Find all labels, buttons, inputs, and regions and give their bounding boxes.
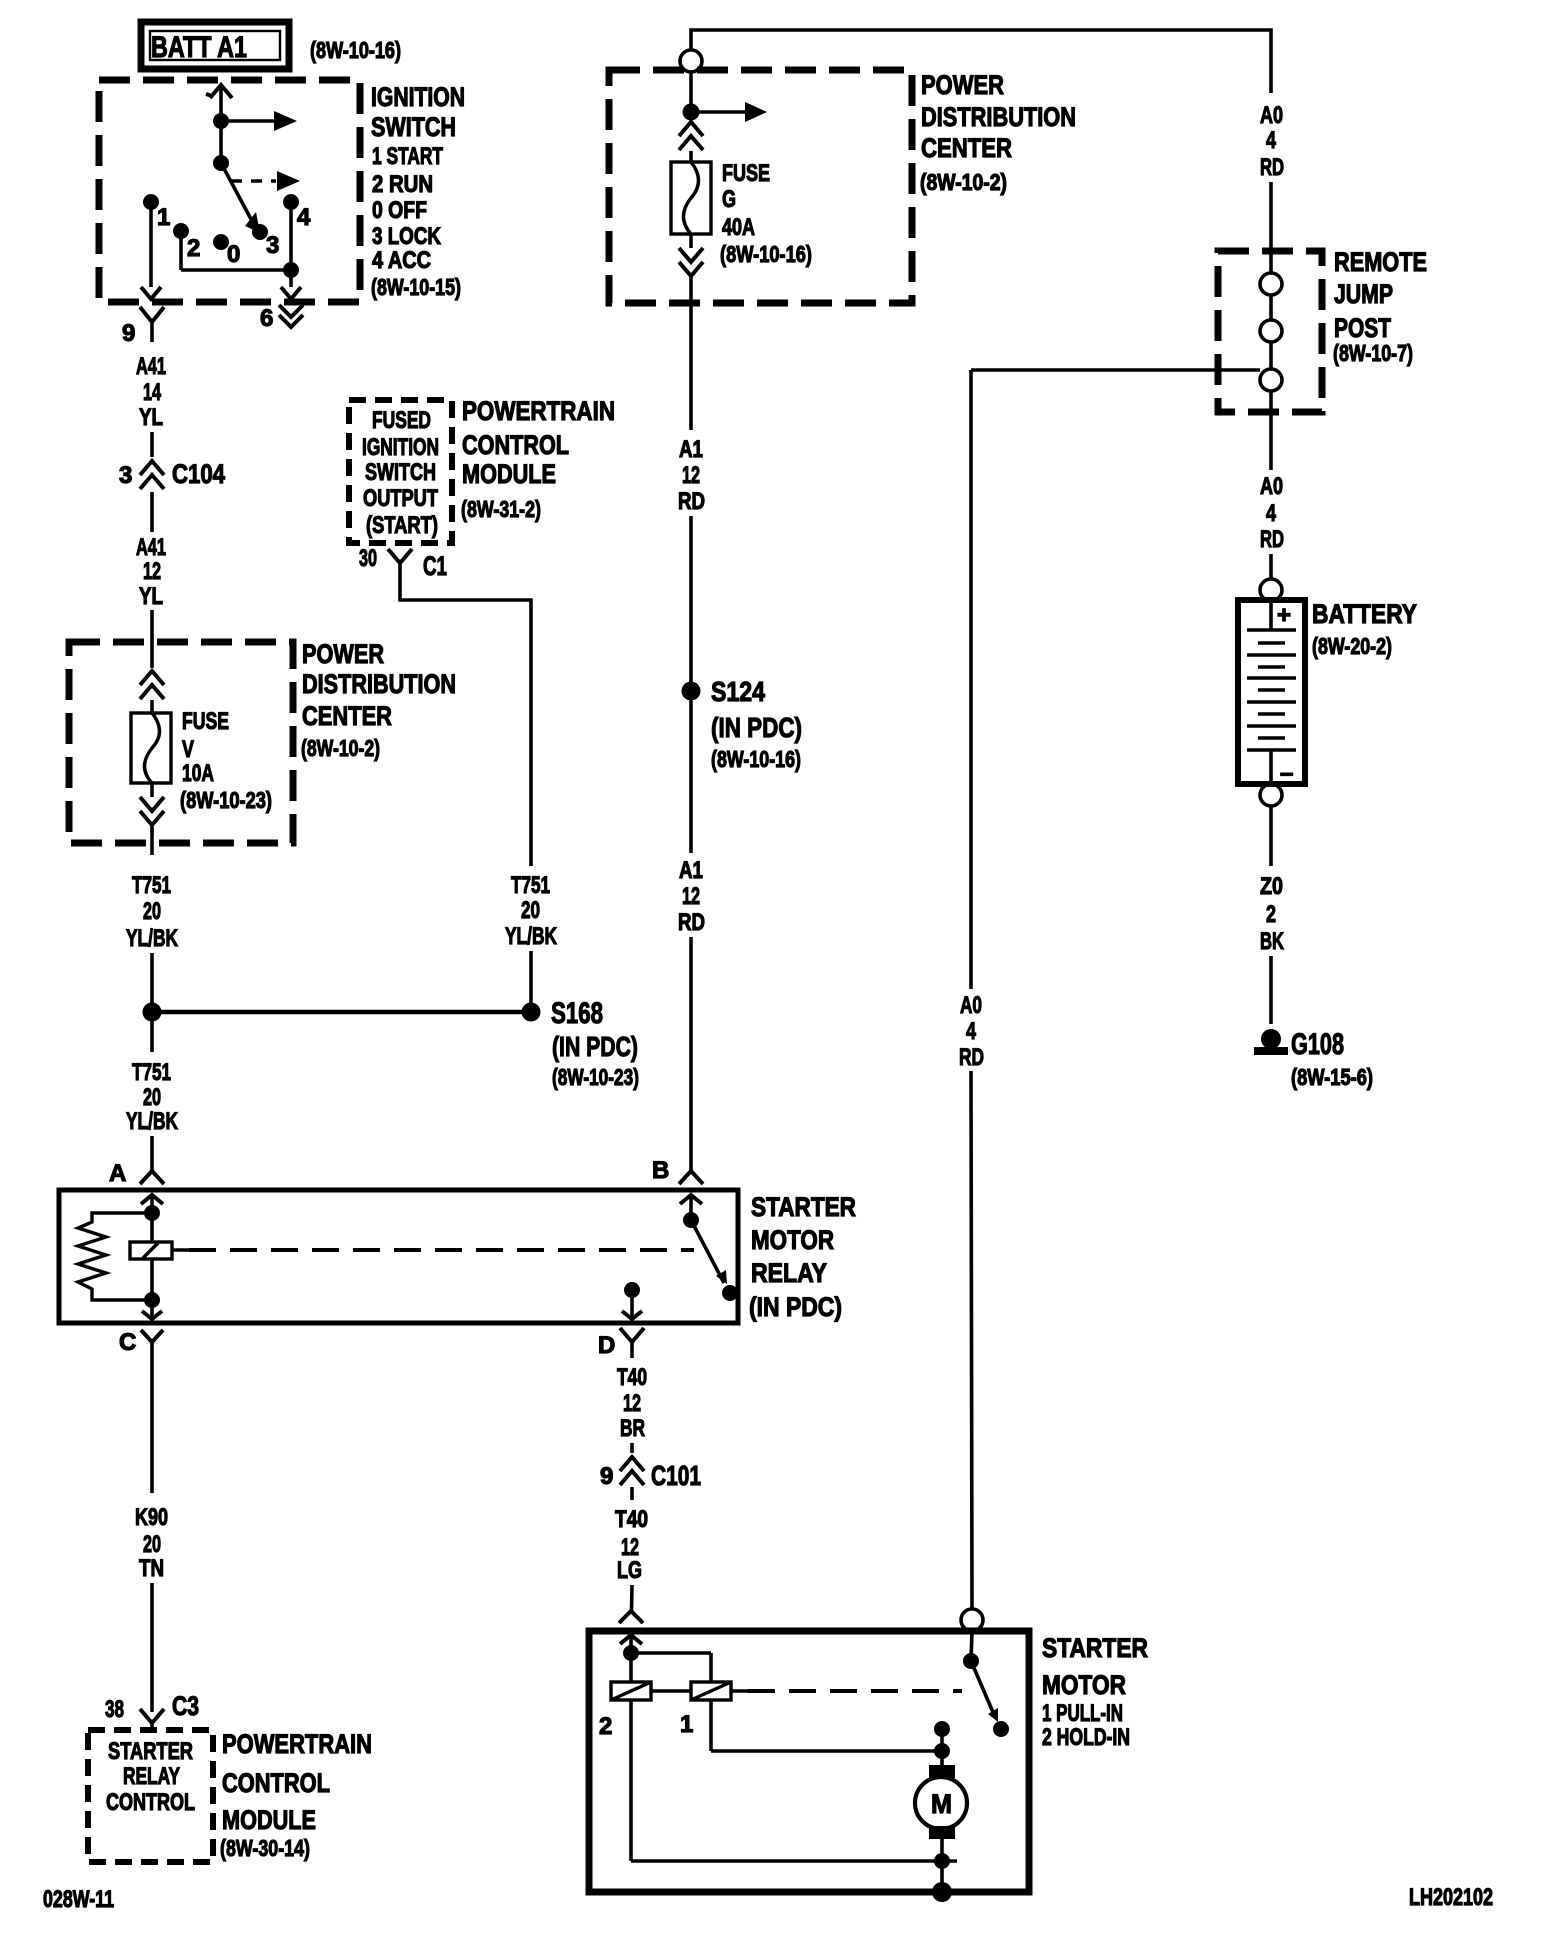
svg-text:M: M: [931, 1789, 952, 1819]
starter motor box: [589, 1631, 1029, 1892]
svg-text:JUMP: JUMP: [1334, 279, 1393, 309]
svg-text:C101: C101: [651, 1460, 701, 1491]
svg-text:G108: G108: [1291, 1028, 1344, 1061]
svg-text:T751: T751: [511, 872, 550, 899]
svg-text:12: 12: [682, 462, 700, 489]
wire resumes to S168: [529, 951, 533, 1003]
svg-text:BATTERY: BATTERY: [1312, 599, 1417, 629]
svg-text:2 HOLD-IN: 2 HOLD-IN: [1042, 1724, 1130, 1751]
svg-text:S168: S168: [551, 997, 603, 1030]
ignition switch common feed wire: [206, 85, 232, 163]
ignition switch RUN dashed arrow: [231, 171, 300, 191]
svg-text:20: 20: [521, 897, 540, 924]
svg-text:FUSE: FUSE: [182, 708, 229, 735]
PDC internal feed with arrow: [683, 72, 768, 122]
fuse G labels: [720, 160, 812, 267]
starter B+ stud terminal: [961, 1609, 983, 1631]
svg-text:STARTER: STARTER: [108, 1738, 193, 1765]
starter motor relay labels: [749, 1192, 856, 1322]
svg-text:RD: RD: [678, 488, 705, 515]
svg-text:4: 4: [1266, 127, 1276, 154]
svg-text:BK: BK: [1260, 928, 1284, 955]
splice S124 junction: [682, 682, 701, 701]
svg-text:LG: LG: [617, 1557, 642, 1584]
svg-text:12: 12: [682, 883, 700, 910]
wire A41 14 YL label: [136, 353, 166, 431]
svg-text:(8W-10-23): (8W-10-23): [552, 1064, 639, 1090]
wire from C1 to splice S168: [400, 577, 531, 866]
starter motor labels: [1042, 1633, 1148, 1751]
svg-text:4: 4: [966, 1018, 976, 1045]
svg-text:A0: A0: [1260, 473, 1283, 500]
svg-text:9: 9: [122, 320, 135, 347]
svg-text:POWER: POWER: [302, 639, 384, 669]
svg-text:C: C: [119, 1329, 136, 1356]
svg-text:K90: K90: [135, 1504, 168, 1531]
fuse V 10A element: [131, 713, 171, 783]
svg-text:0: 0: [227, 241, 240, 268]
wire A0 4 RD to starter motor: [959, 370, 984, 1609]
svg-text:T40: T40: [615, 1506, 648, 1533]
fuse G output connector chevrons: [679, 234, 703, 303]
svg-text:FUSE: FUSE: [722, 160, 770, 187]
svg-text:38: 38: [105, 1696, 124, 1723]
svg-text:IGNITION: IGNITION: [362, 434, 439, 461]
svg-text:14: 14: [143, 379, 161, 406]
pull-in winding to motor wire: [711, 1700, 950, 1766]
svg-text:RD: RD: [959, 1044, 984, 1071]
svg-text:CENTER: CENTER: [921, 133, 1012, 163]
svg-text:RELAY: RELAY: [123, 1763, 180, 1790]
svg-text:CENTER: CENTER: [302, 701, 392, 731]
svg-text:REMOTE: REMOTE: [1334, 247, 1427, 277]
fuse G 40A element: [671, 162, 711, 234]
svg-text:20: 20: [143, 1531, 161, 1558]
jump post stud 3: [1260, 342, 1282, 391]
svg-text:C3: C3: [172, 1691, 199, 1721]
relay pin A connector: [109, 1160, 164, 1213]
wire contact1 to pin 9: [141, 202, 161, 299]
solenoid hold-in winding 2: [599, 1682, 651, 1740]
svg-text:MOTOR: MOTOR: [1042, 1670, 1126, 1700]
svg-text:POWER: POWER: [921, 70, 1004, 100]
svg-text:2: 2: [599, 1713, 612, 1740]
relay actuation dashed link: [172, 1248, 189, 1252]
svg-text:C1: C1: [423, 551, 447, 581]
ground G108: [1254, 1028, 1373, 1090]
svg-text:SWITCH: SWITCH: [371, 112, 456, 142]
svg-text:YL/BK: YL/BK: [126, 1108, 178, 1135]
ignition switch pin 6 connector: [260, 305, 303, 332]
splice S124 labels: [711, 676, 802, 772]
ignition switch rotor contact: [213, 155, 229, 171]
relay pin D connector: [598, 1328, 644, 1359]
svg-text:(8W-10-2): (8W-10-2): [920, 169, 1007, 195]
wire A1 12 RD label (lower): [678, 700, 705, 1171]
svg-text:20: 20: [143, 898, 161, 925]
jump post stud 2: [1260, 295, 1282, 342]
splice S168 labels: [551, 997, 639, 1090]
svg-text:T751: T751: [132, 1059, 171, 1086]
svg-text:(8W-10-16): (8W-10-16): [720, 241, 812, 267]
svg-text:S124: S124: [711, 676, 765, 707]
connector C3 pin 38: [105, 1691, 199, 1730]
power distribution center (top) dashed box: [609, 70, 912, 303]
relay internal resistor: [78, 1213, 152, 1300]
relay coil node A: [144, 1205, 160, 1221]
ignition switch S1 dashed box: [99, 80, 360, 302]
svg-text:028W-11: 028W-11: [43, 1886, 114, 1913]
starter motor pin 2 connector: [619, 1611, 643, 1653]
svg-text:30: 30: [359, 545, 377, 572]
svg-text:40A: 40A: [722, 214, 755, 241]
svg-text:BR: BR: [620, 1415, 645, 1442]
svg-text:3: 3: [266, 232, 279, 259]
wire T751 20 YL/BK label (C1 branch): [505, 872, 557, 950]
powertrain control module (lower) labels: [220, 1729, 372, 1861]
svg-text:20: 20: [143, 1084, 161, 1111]
PDC B+ terminal circle: [680, 50, 702, 72]
svg-text:(START): (START): [366, 512, 438, 539]
svg-text:BATT A1: BATT A1: [151, 31, 247, 64]
svg-text:V: V: [182, 736, 194, 763]
solenoid actuation link: [651, 1689, 962, 1693]
wire A0 4 RD label (top right): [1260, 102, 1284, 273]
svg-text:2 RUN: 2 RUN: [372, 171, 433, 198]
battery negative terminal: [1260, 784, 1282, 806]
node BATT A1 feed box: [141, 22, 289, 69]
remote jump post dashed box: [1218, 251, 1322, 412]
svg-text:C104: C104: [172, 459, 225, 489]
svg-text:(8W-10-16): (8W-10-16): [711, 746, 801, 772]
battery labels: [1312, 599, 1417, 659]
ignition switch position contact 2: [173, 223, 200, 262]
svg-text:(IN PDC): (IN PDC): [552, 1031, 638, 1062]
relay switch contact to D: [622, 1282, 642, 1319]
svg-text:T751: T751: [132, 872, 171, 899]
svg-text:(8W-15-6): (8W-15-6): [1291, 1064, 1373, 1090]
svg-text:MODULE: MODULE: [462, 459, 556, 489]
svg-text:4: 4: [297, 204, 311, 231]
svg-text:2: 2: [1266, 901, 1276, 928]
svg-text:RD: RD: [1260, 526, 1284, 553]
svg-text:TN: TN: [139, 1555, 164, 1582]
svg-text:(8W-10-16): (8W-10-16): [310, 37, 401, 63]
svg-text:–: –: [1280, 760, 1293, 787]
ignition switch wiper arm to position 3: [221, 163, 260, 233]
connector C1 pin 30: [359, 545, 447, 581]
svg-text:3: 3: [119, 462, 132, 489]
wire K90 20 TN from relay C to PCM: [135, 1504, 168, 1712]
relay pin C connector: [119, 1300, 163, 1493]
wire A0 4 RD label (to battery): [1260, 391, 1284, 579]
wire to starter from jump post: [971, 368, 1260, 372]
svg-text:CONTROL: CONTROL: [222, 1768, 330, 1798]
fuse V labels: [180, 708, 272, 813]
wire below C104: [150, 492, 154, 532]
svg-text:POWERTRAIN: POWERTRAIN: [462, 396, 615, 426]
fused ignition switch output (start) dashed box: [349, 400, 452, 543]
fuse V output connector chevrons: [140, 783, 164, 855]
svg-text:D: D: [598, 1332, 615, 1359]
wire T40 12 BR label: [617, 1364, 647, 1453]
ignition switch position contact 4: [283, 194, 311, 231]
svg-text:OUTPUT: OUTPUT: [363, 485, 438, 512]
svg-text:YL/BK: YL/BK: [126, 925, 178, 952]
ignition switch position contact 1: [143, 194, 170, 231]
svg-text:MOTOR: MOTOR: [751, 1225, 834, 1255]
starter motor relay box: [59, 1190, 738, 1323]
svg-text:MODULE: MODULE: [222, 1805, 316, 1835]
svg-text:A1: A1: [679, 436, 703, 463]
svg-text:0 OFF: 0 OFF: [372, 197, 427, 224]
svg-text:CONTROL: CONTROL: [106, 1789, 195, 1816]
svg-text:1: 1: [157, 204, 170, 231]
svg-text:1 PULL-IN: 1 PULL-IN: [1042, 1700, 1123, 1727]
svg-text:A1: A1: [679, 857, 703, 884]
wire contact2/contact4 to pin 6: [181, 202, 301, 299]
svg-text:A: A: [109, 1160, 126, 1187]
svg-text:(IN PDC): (IN PDC): [711, 712, 802, 743]
remote jump post labels: [1333, 247, 1427, 366]
svg-text:10A: 10A: [182, 760, 214, 787]
svg-text:POST: POST: [1334, 313, 1391, 343]
connector C101 pin 9: [600, 1457, 701, 1500]
svg-text:B: B: [652, 1157, 669, 1184]
svg-text:DISTRIBUTION: DISTRIBUTION: [921, 102, 1076, 132]
svg-text:STARTER: STARTER: [751, 1192, 856, 1222]
wire into C104: [150, 432, 154, 457]
wire Z0 2 BK label: [1260, 806, 1284, 1024]
starter solenoid node: [623, 1645, 711, 1682]
wire T751 20 YL/BK label (lower): [126, 1021, 178, 1171]
starter solenoid switch contact: [963, 1631, 1009, 1737]
svg-text:3 LOCK: 3 LOCK: [372, 223, 442, 250]
svg-text:STARTER: STARTER: [1042, 1633, 1148, 1663]
svg-text:FUSED: FUSED: [372, 407, 431, 434]
svg-text:+: +: [1277, 602, 1291, 629]
ignition switch position contact 3: [252, 224, 279, 259]
svg-text:YL: YL: [139, 583, 163, 610]
svg-text:RD: RD: [678, 909, 705, 936]
svg-text:(8W-10-23): (8W-10-23): [180, 787, 272, 813]
solenoid pull-in winding 1: [680, 1682, 731, 1738]
svg-text:T40: T40: [617, 1364, 647, 1391]
ignition switch pin 9 connector: [122, 307, 164, 347]
top bus wire from PDC to remote jump post: [691, 30, 1271, 93]
svg-text:9: 9: [600, 1463, 613, 1490]
jump post stud 1: [1260, 273, 1282, 295]
svg-text:6: 6: [260, 305, 273, 332]
starter relay control dashed box: [88, 1730, 213, 1862]
svg-text:12: 12: [623, 1390, 641, 1417]
svg-text:YL: YL: [139, 404, 163, 431]
svg-text:A41: A41: [136, 534, 166, 561]
power distribution center (left) dashed box: [69, 642, 293, 843]
relay coil K1: [130, 1213, 172, 1300]
svg-text:Z0: Z0: [1260, 873, 1283, 900]
fuse G input connector chevrons: [679, 122, 703, 162]
svg-text:1: 1: [680, 1711, 693, 1738]
svg-text:RELAY: RELAY: [751, 1258, 827, 1288]
power distribution center (left) labels: [301, 639, 456, 761]
wire T751 20 YL/BK label (upper): [126, 872, 178, 952]
svg-text:A0: A0: [960, 992, 982, 1019]
svg-text:A0: A0: [1260, 102, 1283, 129]
wire A41 12 YL label: [136, 534, 166, 610]
battery positive terminal: [1260, 579, 1282, 601]
ignition switch title labels: [371, 82, 465, 300]
svg-text:(8W-10-7): (8W-10-7): [1333, 340, 1413, 366]
wire T40 12 LG label: [615, 1506, 648, 1611]
starter motor M1: [915, 1765, 967, 1839]
connector C104 pin 3: [119, 459, 225, 489]
wire down to splice S168: [150, 953, 154, 1003]
svg-text:A41: A41: [136, 353, 166, 380]
wire into left PDC: [150, 610, 154, 668]
wire A1 12 RD label (upper): [678, 303, 705, 682]
svg-text:RD: RD: [1260, 154, 1284, 181]
svg-text:(IN PDC): (IN PDC): [749, 1292, 842, 1322]
svg-text:IGNITION: IGNITION: [371, 82, 465, 112]
svg-text:(8W-10-2): (8W-10-2): [301, 735, 380, 761]
fuse V input connector chevrons: [140, 671, 164, 713]
svg-text:4: 4: [1266, 500, 1276, 527]
relay switch contact from B: [683, 1212, 738, 1301]
battery B1: [1238, 600, 1305, 787]
svg-text:12: 12: [143, 558, 161, 585]
svg-text:DISTRIBUTION: DISTRIBUTION: [302, 669, 456, 699]
svg-text:(8W-20-2): (8W-20-2): [1312, 633, 1392, 659]
svg-text:1 START: 1 START: [372, 143, 443, 170]
power distribution center (top) labels: [920, 70, 1076, 195]
svg-text:POWERTRAIN: POWERTRAIN: [222, 1729, 372, 1759]
svg-text:YL/BK: YL/BK: [505, 923, 557, 950]
svg-text:2: 2: [187, 235, 200, 262]
ignition switch START output arrow: [213, 111, 297, 131]
powertrain control module (upper) labels: [461, 396, 615, 522]
motor ground return wires: [631, 1700, 957, 1902]
relay coil node C: [144, 1292, 160, 1308]
svg-text:LH202102: LH202102: [1409, 1884, 1493, 1911]
svg-text:CONTROL: CONTROL: [462, 430, 569, 460]
ignition switch position contact 0: [213, 234, 240, 268]
svg-text:(8W-10-15): (8W-10-15): [371, 274, 461, 300]
svg-text:(8W-30-14): (8W-30-14): [220, 1835, 310, 1861]
svg-text:4 ACC: 4 ACC: [372, 247, 431, 274]
svg-text:SWITCH: SWITCH: [365, 459, 436, 486]
svg-text:(8W-31-2): (8W-31-2): [461, 496, 541, 522]
relay pin B connector: [652, 1157, 703, 1220]
svg-text:G: G: [722, 186, 736, 213]
splice S168 junction: [143, 1003, 541, 1022]
